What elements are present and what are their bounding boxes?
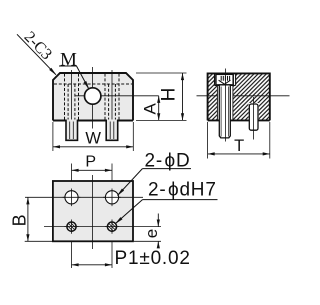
hidden lines: right hole column xyxy=(105,74,119,120)
svg-text:P1±0.02: P1±0.02 xyxy=(115,248,191,269)
counterbore hole top-left (plan view) xyxy=(63,189,81,207)
dimension B xyxy=(9,197,52,241)
center line: screw axis (side view) xyxy=(224,69,226,142)
center line: vertical middle of plan view xyxy=(92,175,94,249)
plan view rectangle xyxy=(53,181,133,241)
socket head cap screw head (side view) xyxy=(216,74,233,85)
svg-text:A: A xyxy=(141,102,160,114)
dimension P1±0.02 xyxy=(72,248,191,269)
screw shank with thread (side view) xyxy=(219,85,230,138)
dowel hole bottom-right (plan view) xyxy=(105,220,119,234)
center line: left hole column (front view) xyxy=(71,70,73,125)
dimension W xyxy=(53,122,133,151)
label 2-phi-dH7 with leader to bottom-right hole xyxy=(115,180,217,224)
dimension A xyxy=(141,96,161,121)
center line: right hole column (front view) xyxy=(111,70,113,125)
label M with leader to hole xyxy=(59,49,89,89)
label 2-C3 with leader to chamfer xyxy=(17,28,56,74)
svg-text:T: T xyxy=(234,137,244,155)
svg-text:2-ϕdH7: 2-ϕdH7 xyxy=(148,180,217,201)
dowel hole bottom-left (plan view) xyxy=(64,220,78,234)
right screw protruding below block xyxy=(106,120,118,141)
svg-text:B: B xyxy=(9,214,29,226)
dimension e xyxy=(134,214,161,249)
label 2-phiD with leader to top-right hole xyxy=(118,151,192,196)
dimension T xyxy=(208,122,270,159)
counterbore hole top-right (plan view) xyxy=(103,189,121,207)
hole M circle xyxy=(85,88,101,104)
center line: vertical middle of front view xyxy=(92,67,94,129)
hidden lines: left hole column xyxy=(65,74,79,120)
center line: horizontal through hole M across both views xyxy=(75,95,290,97)
side view block (section) xyxy=(208,73,270,120)
svg-text:e: e xyxy=(142,229,161,238)
svg-text:W: W xyxy=(85,130,101,148)
left screw protruding below block xyxy=(66,120,78,141)
front view block outline xyxy=(53,73,133,121)
hidden line: counterbore depth across front view xyxy=(54,83,132,85)
svg-text:P: P xyxy=(85,154,96,171)
svg-text:H: H xyxy=(159,88,180,102)
center line: top hole row (plan view) xyxy=(25,196,143,198)
svg-text:M: M xyxy=(60,49,77,70)
center line: dowel pin axis (side view) xyxy=(253,97,255,140)
dimension P xyxy=(72,154,113,269)
center line: bottom hole row (plan view) xyxy=(44,226,161,228)
counterbore walls and seat (side view) xyxy=(215,73,236,85)
clearance hole walls (side view) xyxy=(217,86,233,121)
dimension H xyxy=(136,73,187,120)
dowel pin (side view) xyxy=(249,104,258,130)
